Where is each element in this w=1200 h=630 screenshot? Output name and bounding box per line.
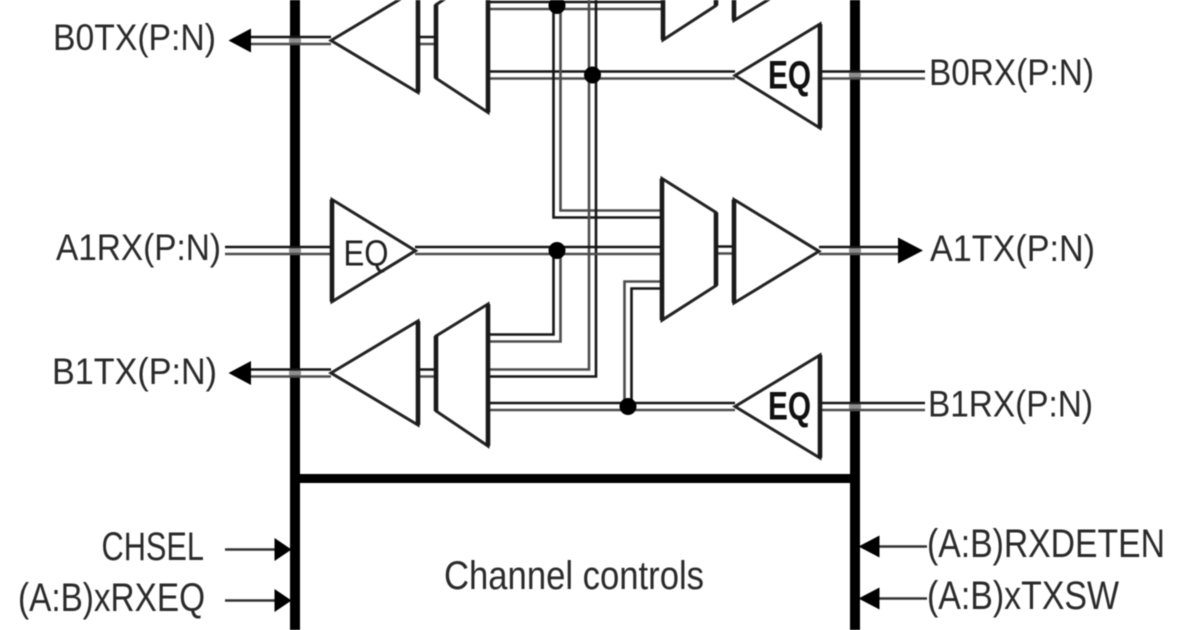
svg-text:CHSEL: CHSEL (102, 525, 205, 569)
svg-text:A1TX(P:N): A1TX(P:N) (930, 228, 1095, 269)
svg-text:EQ: EQ (768, 385, 811, 429)
svg-text:EQ: EQ (768, 54, 811, 98)
svg-text:B1RX(P:N): B1RX(P:N) (928, 384, 1093, 425)
svg-text:A1RX(P:N): A1RX(P:N) (56, 227, 221, 268)
svg-text:B0TX(P:N): B0TX(P:N) (53, 17, 216, 58)
svg-text:(A:B)xTXSW: (A:B)xTXSW (927, 574, 1119, 618)
svg-text:(A:B)RXDETEN: (A:B)RXDETEN (927, 522, 1165, 566)
svg-text:EQ: EQ (344, 233, 389, 274)
svg-text:Channel controls: Channel controls (444, 554, 704, 598)
svg-text:(A:B)xRXEQ: (A:B)xRXEQ (18, 576, 205, 620)
svg-text:B1TX(P:N): B1TX(P:N) (52, 351, 217, 392)
svg-text:B0RX(P:N): B0RX(P:N) (929, 52, 1094, 93)
